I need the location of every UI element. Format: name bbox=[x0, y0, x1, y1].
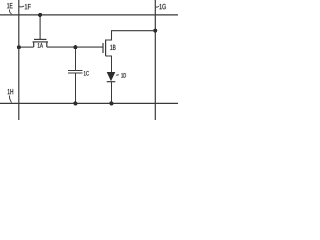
capacitor 1C bottom lead bbox=[75, 73, 77, 104]
leader for label 1F bbox=[19, 5, 24, 8]
wire bottom rail net H bbox=[0, 102, 178, 104]
label 1D bbox=[121, 73, 126, 77]
diode 1D bbox=[107, 72, 116, 82]
leader for label 1D bbox=[116, 74, 119, 77]
wire vertical line F bbox=[18, 0, 20, 120]
wire source of 1B down to diode bbox=[106, 56, 112, 72]
label 1A bbox=[38, 43, 43, 47]
wire gate lead of 1A bbox=[39, 15, 41, 40]
leader for label 1H bbox=[9, 96, 11, 103]
wire diode cathode to bottom rail bbox=[111, 82, 113, 104]
capacitor 1C bbox=[68, 70, 83, 73]
node junction dot capacitor tap bbox=[73, 45, 77, 49]
wire vertical line G bbox=[154, 0, 156, 120]
label 1C bbox=[84, 71, 89, 76]
wire drain of 1A to gate of 1B bbox=[47, 46, 103, 48]
transistor Q 1A bbox=[33, 39, 49, 47]
leader for label 1G bbox=[156, 5, 159, 8]
label 1F bbox=[25, 4, 31, 9]
label 1H bbox=[8, 89, 13, 94]
node junction dot capacitor on bottom rail bbox=[73, 101, 77, 105]
node junction dot diode on bottom rail bbox=[109, 101, 113, 105]
node junction dot gate 1A on top rail bbox=[38, 13, 42, 17]
node junction dot source 1A on line F bbox=[17, 45, 21, 49]
label 1G bbox=[160, 4, 166, 9]
wire source of 1A to line F bbox=[18, 46, 33, 48]
label 1E bbox=[7, 3, 12, 8]
node junction dot drain 1B on line G bbox=[153, 29, 157, 33]
transistor Q 1B bbox=[103, 40, 106, 57]
capacitor 1C top lead bbox=[75, 48, 77, 71]
leader for label 1E bbox=[9, 10, 11, 15]
wire drain of 1B up to line G bbox=[106, 31, 156, 40]
wire top rail net E bbox=[0, 14, 178, 16]
label 1B bbox=[110, 45, 115, 50]
